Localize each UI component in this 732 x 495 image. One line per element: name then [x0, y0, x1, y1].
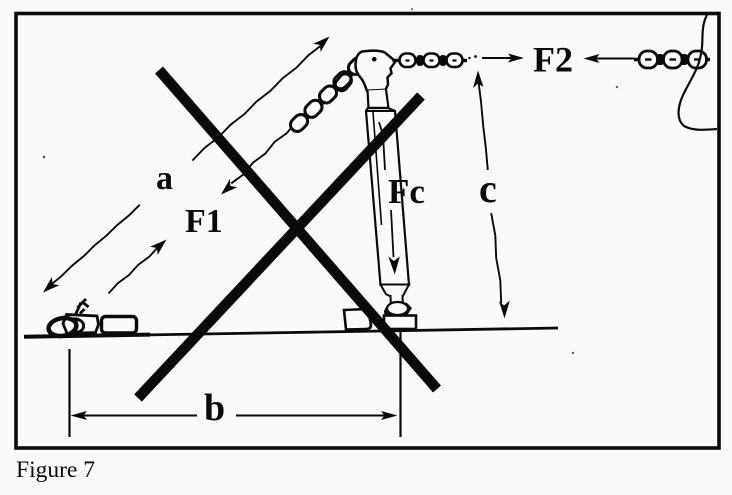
wavy dimension arrow a (up-right) [192, 45, 322, 161]
dashed arrow pointing right toward F2 [468, 57, 470, 59]
load edge contour at right [679, 15, 717, 130]
wavy force arrow F1 (down-left) [50, 205, 140, 286]
dimension line c (vertical, wavy, arrows both ends) [478, 80, 501, 303]
arrow pointing left toward F2 from right chain [592, 58, 634, 60]
svg-text:c: c [479, 166, 497, 211]
binder shaft [366, 108, 409, 285]
svg-text:b: b [204, 387, 225, 429]
big X stroke (top-right to bottom-left) [138, 96, 421, 398]
svg-text:Fc: Fc [388, 172, 425, 211]
wavy force arrow F1 (up-right) [109, 247, 159, 294]
svg-text:Figure 7: Figure 7 [16, 457, 95, 483]
binder pivot hole [372, 57, 377, 62]
anchor shackle sketch on deck [47, 299, 136, 338]
right chain at load [634, 51, 710, 68]
force arrow Fc inside shaft [379, 122, 394, 257]
big X stroke (top-left to bottom-right) [159, 70, 437, 389]
svg-text:a: a [156, 160, 173, 197]
binder lower taper and foot [381, 285, 410, 297]
dimension b left extension line [68, 349, 70, 437]
load binder head [355, 51, 394, 91]
diagonal chain from binder head [288, 55, 369, 135]
wavy dimension arrow a (down-left) [231, 121, 296, 183]
ground line [24, 328, 558, 337]
svg-text:F1: F1 [185, 203, 223, 240]
horizontal chain from head to the right [394, 54, 467, 68]
dimension b right extension line [399, 332, 401, 437]
scan speckles [43, 156, 46, 159]
svg-text:F2: F2 [533, 40, 573, 80]
left chain link at head [333, 72, 354, 94]
dimension b arrow [78, 415, 390, 417]
binder neck [368, 90, 389, 109]
